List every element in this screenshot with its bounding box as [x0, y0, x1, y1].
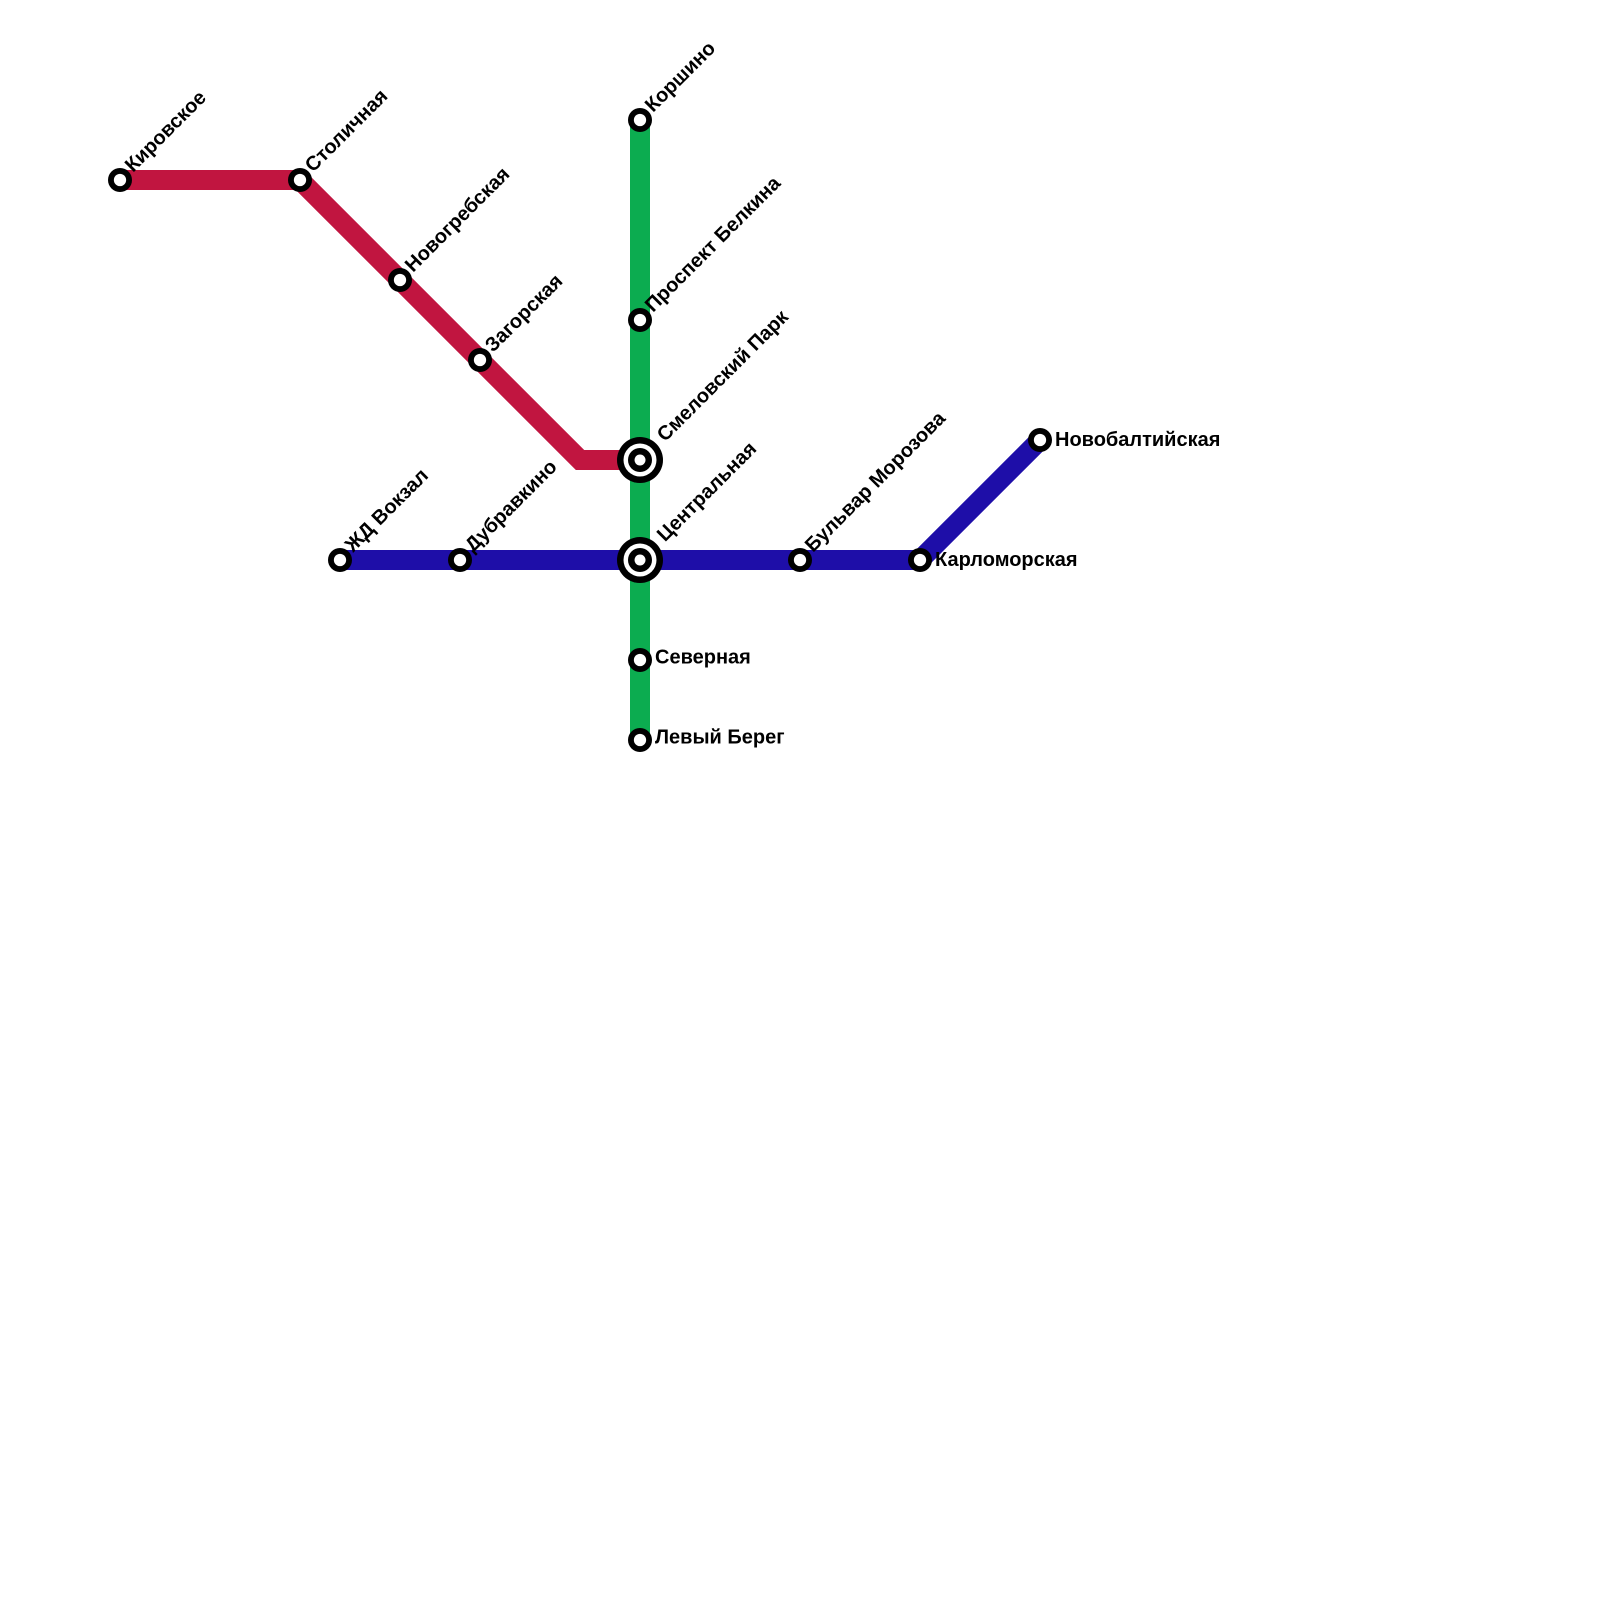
svg-text:Карломорская: Карломорская	[935, 549, 1078, 571]
svg-text:Левый Берег: Левый Берег	[655, 727, 785, 749]
svg-text:Северная: Северная	[655, 647, 751, 669]
svg-text:Новобалтийская: Новобалтийская	[1055, 429, 1220, 451]
